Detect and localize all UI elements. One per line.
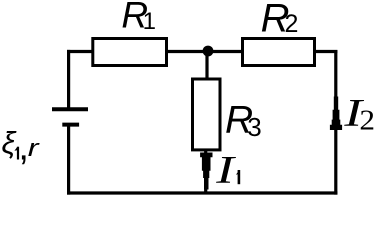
svg-text:1: 1 — [143, 8, 156, 35]
svg-text:3: 3 — [247, 112, 261, 142]
svg-text:ξ: ξ — [2, 125, 18, 160]
svg-text:2: 2 — [359, 104, 375, 137]
svg-text:2: 2 — [285, 10, 299, 38]
svg-text:r: r — [28, 135, 41, 162]
svg-text:I: I — [215, 149, 237, 192]
